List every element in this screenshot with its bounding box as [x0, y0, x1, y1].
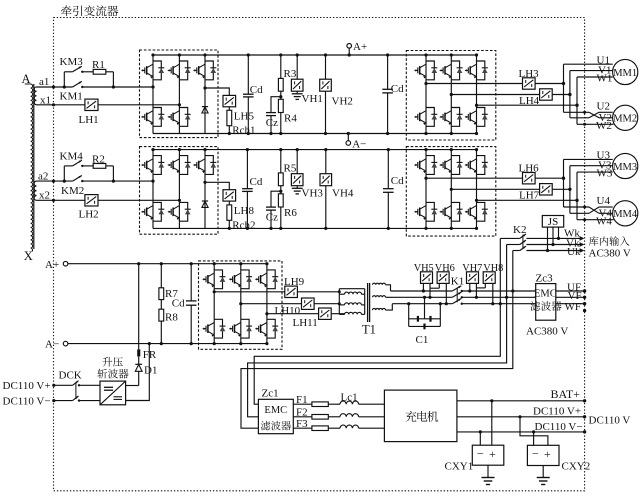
- current sensor LH5 + charging resistor Rch1: [223, 95, 236, 106]
- secondary winding a2-x2: [34, 181, 36, 200]
- node a-phase into leg1: [151, 85, 154, 88]
- svg-text:KM3: KM3: [60, 56, 84, 68]
- current sensor LH6: [523, 173, 536, 184]
- CXY1 positive lead: [491, 401, 493, 445]
- wire leg3 to charge circuit: [205, 182, 229, 189]
- 4-quadrant converter (dashed box): [140, 50, 219, 138]
- svg-text:Cd: Cd: [391, 83, 404, 95]
- svg-text:MM4: MM4: [613, 209, 638, 220]
- svg-text:LH1: LH1: [79, 114, 99, 126]
- 4-quadrant converter (dashed box): [140, 147, 219, 235]
- IGBT (upper): [153, 156, 161, 175]
- svg-text:VH2: VH2: [332, 96, 353, 108]
- interlock switch JS: [542, 216, 563, 228]
- svg-text:K1: K1: [451, 275, 464, 287]
- converter leg wire: [178, 55, 180, 134]
- svg-text:+: +: [489, 447, 496, 461]
- svg-text:LH5: LH5: [234, 111, 255, 123]
- tie wire 2: [248, 245, 507, 417]
- freewheel diode leg3: [202, 106, 208, 108]
- svg-text:KM2: KM2: [61, 185, 84, 197]
- svg-text:Cd: Cd: [391, 175, 404, 187]
- phase U output wire: [426, 83, 523, 85]
- svg-text:Lc1: Lc1: [341, 391, 358, 403]
- transformer core: [33, 84, 35, 249]
- CXY2 positive lead: [520, 417, 548, 446]
- converter leg wire: [204, 55, 206, 134]
- wires to motor MM3: [564, 158, 613, 160]
- svg-text:LH9: LH9: [284, 276, 305, 288]
- phase wire U (aux): [391, 290, 453, 292]
- resistor R1: [93, 69, 106, 74]
- svg-text:DC110 V+: DC110 V+: [533, 406, 581, 418]
- svg-text:+: +: [544, 447, 551, 461]
- svg-text:AC380 V: AC380 V: [526, 326, 568, 338]
- bypass branch KM3/R1: [63, 72, 65, 87]
- wire Wk: [500, 237, 520, 239]
- svg-text:C1: C1: [416, 334, 429, 346]
- voltage sensor VH7: [467, 272, 479, 284]
- phase U output wire: [426, 177, 523, 179]
- svg-text:R4: R4: [284, 113, 297, 125]
- svg-text:VH6: VH6: [435, 263, 455, 274]
- EMC filter Zc1: [258, 399, 293, 433]
- aux phase wire 2 + current sensor LH10: [241, 303, 302, 305]
- IGBT (lower): [179, 202, 187, 221]
- svg-text:Zc3: Zc3: [536, 273, 554, 285]
- bypass branch KM4/R2: [63, 166, 65, 181]
- charger output DC110 V+: [457, 416, 585, 418]
- svg-text:A+: A+: [353, 41, 367, 53]
- wires to motor MM2 (U/V crossed): [564, 111, 590, 113]
- aux output wires UF VF WF: [556, 290, 585, 292]
- wires to motor MM4 (U/V crossed): [564, 206, 590, 208]
- contactor KM1 (main): [73, 81, 82, 87]
- contactor KM2 (main): [73, 176, 82, 182]
- surge capacitor CXY1: [472, 445, 504, 465]
- wire Zc1 to charger F2: [293, 416, 312, 418]
- aux inverter leg wire: [240, 264, 242, 344]
- current sensor LH7: [540, 184, 553, 195]
- fuse F2: [312, 415, 328, 420]
- svg-text:Cd: Cd: [172, 298, 185, 310]
- svg-text:LH6: LH6: [519, 163, 540, 175]
- aux DC-link capacitor Cd: [190, 264, 192, 301]
- svg-text:VH7: VH7: [462, 263, 482, 274]
- traction inverter (dashed box): [406, 147, 496, 237]
- wires to motor MM1: [564, 63, 613, 65]
- svg-text:R6: R6: [284, 207, 297, 219]
- divider R3 R4 with Cz and VH1 (row1): [280, 55, 282, 78]
- svg-text:a1: a1: [39, 76, 49, 88]
- svg-text:Zc1: Zc1: [262, 388, 279, 400]
- IGBT (upper): [451, 61, 459, 80]
- contactor KM3: [73, 66, 82, 72]
- svg-text:MM1: MM1: [613, 68, 637, 79]
- svg-text:KM1: KM1: [60, 91, 83, 103]
- aux phase wire 1 + current sensor LH9: [214, 291, 285, 293]
- svg-text:MM2: MM2: [613, 114, 637, 125]
- EMC filter Zc3: [536, 284, 556, 321]
- svg-text:VH5: VH5: [414, 263, 434, 274]
- IGBT (upper): [267, 270, 275, 289]
- surge capacitor CXY2: [527, 445, 559, 465]
- diode D1: [138, 356, 140, 364]
- snubber capacitor Cz (row1): [271, 97, 281, 113]
- node x-phase into leg2: [178, 103, 181, 106]
- label 库内输入 AC380 V: [589, 236, 599, 245]
- IGBT (upper): [426, 61, 434, 80]
- battery charger 充电机: [384, 390, 457, 442]
- IGBT (lower): [214, 319, 222, 338]
- inductor Lc1 phase 1: [340, 401, 359, 404]
- svg-text:Cz: Cz: [266, 212, 278, 224]
- wire DC110V-: [54, 400, 73, 402]
- fuse FR: [137, 349, 140, 356]
- CXY1 negative lead: [479, 432, 481, 445]
- wire leg3 to charge circuit: [205, 88, 229, 95]
- svg-text:R5: R5: [284, 163, 297, 175]
- ground below VH3: [296, 186, 298, 189]
- svg-text:EMC: EMC: [534, 289, 557, 300]
- main transformer primary winding (A-X): [25, 84, 33, 251]
- inverter leg wire: [425, 55, 427, 134]
- svg-text:KM4: KM4: [60, 151, 84, 163]
- traction inverter (dashed box): [406, 51, 496, 141]
- wire Vk: [507, 244, 520, 246]
- wire Uk: [513, 250, 520, 252]
- svg-text:WF: WF: [565, 301, 582, 313]
- node x-phase into leg2: [178, 199, 181, 202]
- K2 pole 2: [520, 240, 526, 244]
- svg-text:CXY1: CXY1: [445, 461, 474, 473]
- IGBT (upper): [179, 61, 187, 80]
- T1 secondary interconnect: [386, 285, 391, 291]
- tie wire 3: [241, 251, 513, 429]
- T1 core: [367, 283, 369, 322]
- svg-text:W1: W1: [597, 73, 613, 85]
- svg-text:LH11: LH11: [293, 317, 318, 329]
- T1 secondary coils: [373, 283, 386, 285]
- divider R5 R6 with Cz and VH3 (row2): [280, 150, 282, 173]
- DCK linkage: [75, 383, 77, 399]
- contactor KM4: [73, 160, 82, 166]
- DC bus bottom: [153, 133, 477, 135]
- svg-text:AC380 V: AC380 V: [589, 247, 631, 259]
- svg-text:W2: W2: [596, 120, 612, 132]
- voltage sensor VH5: [421, 272, 433, 284]
- traction converter enclosure (dashed border): [54, 18, 585, 491]
- wire a-phase: [37, 86, 73, 88]
- terminal A+ (aux): [63, 261, 68, 266]
- svg-text:R8: R8: [165, 312, 178, 324]
- voltage sensor VH4 (row2): [325, 150, 327, 174]
- boost chopper 升压斩波器 (DC/DC box): [100, 381, 126, 405]
- svg-text:F2: F2: [296, 406, 308, 418]
- charger output BAT+: [457, 400, 585, 402]
- voltage sensor VH6: [437, 272, 449, 284]
- svg-text:CXY2: CXY2: [562, 461, 591, 473]
- svg-text:EMC: EMC: [264, 405, 287, 416]
- svg-text:DCK: DCK: [59, 370, 82, 382]
- node a-phase into leg1: [151, 180, 154, 183]
- IGBT (lower): [451, 108, 459, 127]
- svg-text:F3: F3: [296, 418, 308, 430]
- ground below CXY1: [487, 465, 489, 477]
- svg-text:VH1: VH1: [302, 93, 323, 105]
- motor MM4: [613, 201, 638, 226]
- phase V output wire: [451, 94, 539, 96]
- svg-text:JS: JS: [548, 216, 558, 228]
- motor distribution bus (row1): [563, 64, 565, 112]
- svg-text:Cd: Cd: [250, 84, 263, 96]
- terminal A+ (row1): [348, 48, 350, 55]
- svg-text:T1: T1: [362, 323, 376, 337]
- inverter leg wire: [476, 55, 478, 134]
- inductor Lc1 phase 2: [340, 414, 359, 417]
- svg-text:R1: R1: [92, 59, 105, 71]
- T1 primary interconnect: [338, 289, 340, 315]
- secondary winding a1-x1: [34, 87, 36, 105]
- DC-link capacitor Cd (row1 left): [247, 55, 249, 94]
- svg-text:Uk: Uk: [567, 246, 581, 258]
- K2 pole 1: [520, 234, 526, 238]
- svg-text:A−: A−: [45, 339, 59, 351]
- IGBT (lower): [179, 108, 187, 127]
- phase wire W (aux): [392, 303, 452, 305]
- phase wire V (aux): [386, 296, 453, 298]
- svg-text:D1: D1: [144, 365, 157, 377]
- converter leg wire: [152, 55, 154, 134]
- motor MM2: [613, 105, 638, 130]
- svg-text:−: −: [477, 447, 484, 461]
- CXY2 negative lead: [533, 432, 535, 445]
- snubber capacitor Cz (row2): [271, 191, 281, 207]
- aux DC bus positive: [68, 263, 267, 265]
- svg-text:x2: x2: [39, 190, 50, 202]
- IGBT (upper): [205, 61, 213, 80]
- ground below CXY2: [542, 466, 544, 478]
- IGBT (upper): [426, 156, 434, 175]
- voltage sensor VH8: [483, 272, 495, 284]
- current sensor LH3: [523, 78, 536, 89]
- auxiliary inverter (dashed box): [199, 261, 283, 349]
- IGBT (upper): [451, 156, 459, 175]
- svg-text:F1: F1: [296, 394, 308, 406]
- svg-text:LH8: LH8: [234, 205, 255, 217]
- inverter leg wire: [450, 150, 452, 229]
- resistor R2: [93, 164, 106, 169]
- svg-text:A−: A−: [352, 138, 366, 150]
- IGBT (lower): [426, 108, 434, 127]
- voltage sensor VH1 (row1): [296, 55, 298, 79]
- aux DC bus negative: [68, 343, 267, 345]
- phase V output wire: [451, 188, 539, 190]
- DCK pole 1: [73, 381, 79, 386]
- freewheel diode leg3: [202, 200, 208, 202]
- wire DC110V+: [54, 384, 73, 386]
- svg-text:LH3: LH3: [519, 68, 540, 80]
- svg-text:LH2: LH2: [79, 209, 99, 221]
- svg-text:A+: A+: [45, 259, 59, 271]
- svg-text:VH4: VH4: [332, 188, 354, 200]
- motor MM1: [613, 59, 638, 84]
- inverter leg wire: [450, 55, 452, 134]
- svg-text:MM3: MM3: [613, 162, 637, 173]
- K1 linkage: [456, 288, 458, 303]
- current sensor LH2: [85, 195, 98, 206]
- K2 linkage: [522, 235, 524, 250]
- svg-text:Rch1: Rch1: [232, 125, 255, 137]
- K2 pole 3: [520, 246, 526, 250]
- IGBT (upper): [214, 270, 222, 289]
- inverter leg wire: [476, 150, 478, 229]
- svg-text:VH3: VH3: [302, 188, 324, 200]
- IGBT (lower): [241, 319, 249, 338]
- IGBT (upper): [153, 61, 161, 80]
- inductor Lc1 phase 3: [340, 425, 359, 428]
- svg-text:W4: W4: [596, 215, 612, 227]
- svg-text:−: −: [532, 447, 539, 461]
- IGBT (lower): [477, 202, 485, 221]
- IGBT (upper): [179, 156, 187, 175]
- fuse F1: [312, 402, 328, 407]
- voltage sensor VH3 (row2): [296, 150, 298, 174]
- aux phase wire 3 + current sensor LH11: [267, 313, 319, 315]
- IGBT (upper): [477, 156, 485, 175]
- IGBT (lower): [153, 108, 161, 127]
- VH5-VH6 tie: [430, 287, 439, 289]
- svg-text:U2: U2: [597, 100, 610, 112]
- IGBT (upper): [241, 270, 249, 289]
- DC-link capacitor Cd (row1 right): [387, 55, 389, 89]
- svg-text:Cz: Cz: [266, 117, 278, 129]
- svg-text:LH10: LH10: [275, 305, 301, 317]
- DC bus top: [153, 54, 477, 56]
- terminal A- (aux): [63, 341, 68, 346]
- svg-text:DC110 V: DC110 V: [589, 415, 631, 427]
- svg-text:LH4: LH4: [519, 95, 540, 107]
- T1 primary coils: [345, 292, 362, 294]
- wire x-phase: [37, 199, 85, 201]
- aux inverter leg wire: [266, 264, 268, 344]
- aux inverter leg wire: [213, 264, 215, 344]
- inverter leg wire: [425, 150, 427, 229]
- wire chopper negative to A-: [126, 344, 150, 401]
- DCK pole 2: [73, 396, 79, 401]
- DC bus bottom: [153, 227, 477, 229]
- svg-text:DC110 V−: DC110 V−: [535, 421, 583, 433]
- svg-text:DC110 V+: DC110 V+: [3, 380, 51, 392]
- label 牵引变流器: [61, 5, 72, 16]
- svg-text:DC110 V−: DC110 V−: [3, 396, 51, 408]
- IGBT (lower): [451, 202, 459, 221]
- svg-text:R2: R2: [92, 154, 105, 166]
- svg-text:A: A: [22, 72, 31, 86]
- svg-text:BAT+: BAT+: [551, 387, 581, 401]
- wire x-phase: [37, 104, 85, 106]
- tie wire 1: [254, 238, 500, 404]
- VH7-VH8 tie: [476, 287, 485, 289]
- filter capacitor bank C1: [408, 304, 410, 327]
- phase W output wire: [477, 104, 578, 106]
- phase W output wire: [477, 199, 578, 201]
- IGBT (upper): [477, 61, 485, 80]
- fuse F3: [312, 426, 328, 431]
- charger output DC110 V-: [457, 431, 585, 433]
- wire Zc1 to charger F3: [293, 427, 312, 429]
- IGBT (lower): [267, 319, 275, 338]
- motor distribution bus (row2): [563, 159, 565, 207]
- IGBT (upper): [205, 156, 213, 175]
- IGBT (lower): [426, 202, 434, 221]
- svg-text:K2: K2: [513, 224, 526, 236]
- ground below VH1: [296, 91, 298, 94]
- svg-text:R3: R3: [284, 68, 297, 80]
- converter leg wire: [152, 150, 154, 229]
- converter leg wire: [178, 150, 180, 229]
- DC-link capacitor Cd (row2 left): [246, 150, 248, 189]
- voltage sensor VH2 (row1): [325, 55, 327, 79]
- svg-text:Cd: Cd: [250, 176, 263, 188]
- svg-text:LH7: LH7: [519, 190, 540, 202]
- svg-text:Rch2: Rch2: [232, 219, 255, 231]
- svg-text:U4: U4: [597, 195, 611, 207]
- IGBT (lower): [477, 108, 485, 127]
- wire Zc1 to charger F1: [293, 403, 312, 405]
- wire a-phase: [37, 180, 73, 182]
- IGBT (lower): [153, 202, 161, 221]
- fuse FR and diode D1 column (chopper output): [138, 264, 140, 350]
- converter leg wire: [204, 150, 206, 229]
- current sensor LH1: [85, 99, 98, 110]
- current sensor LH4: [540, 89, 553, 100]
- svg-text:W3: W3: [597, 168, 613, 180]
- terminal A- (row1): [347, 134, 349, 141]
- current sensor LH8 + charging resistor Rch2: [223, 190, 236, 201]
- svg-text:X: X: [24, 249, 33, 263]
- motor MM3: [613, 153, 638, 178]
- discharge resistors R7 R8: [160, 264, 162, 288]
- DC-link capacitor Cd (row2 right): [387, 150, 389, 189]
- DC bus top: [153, 149, 477, 151]
